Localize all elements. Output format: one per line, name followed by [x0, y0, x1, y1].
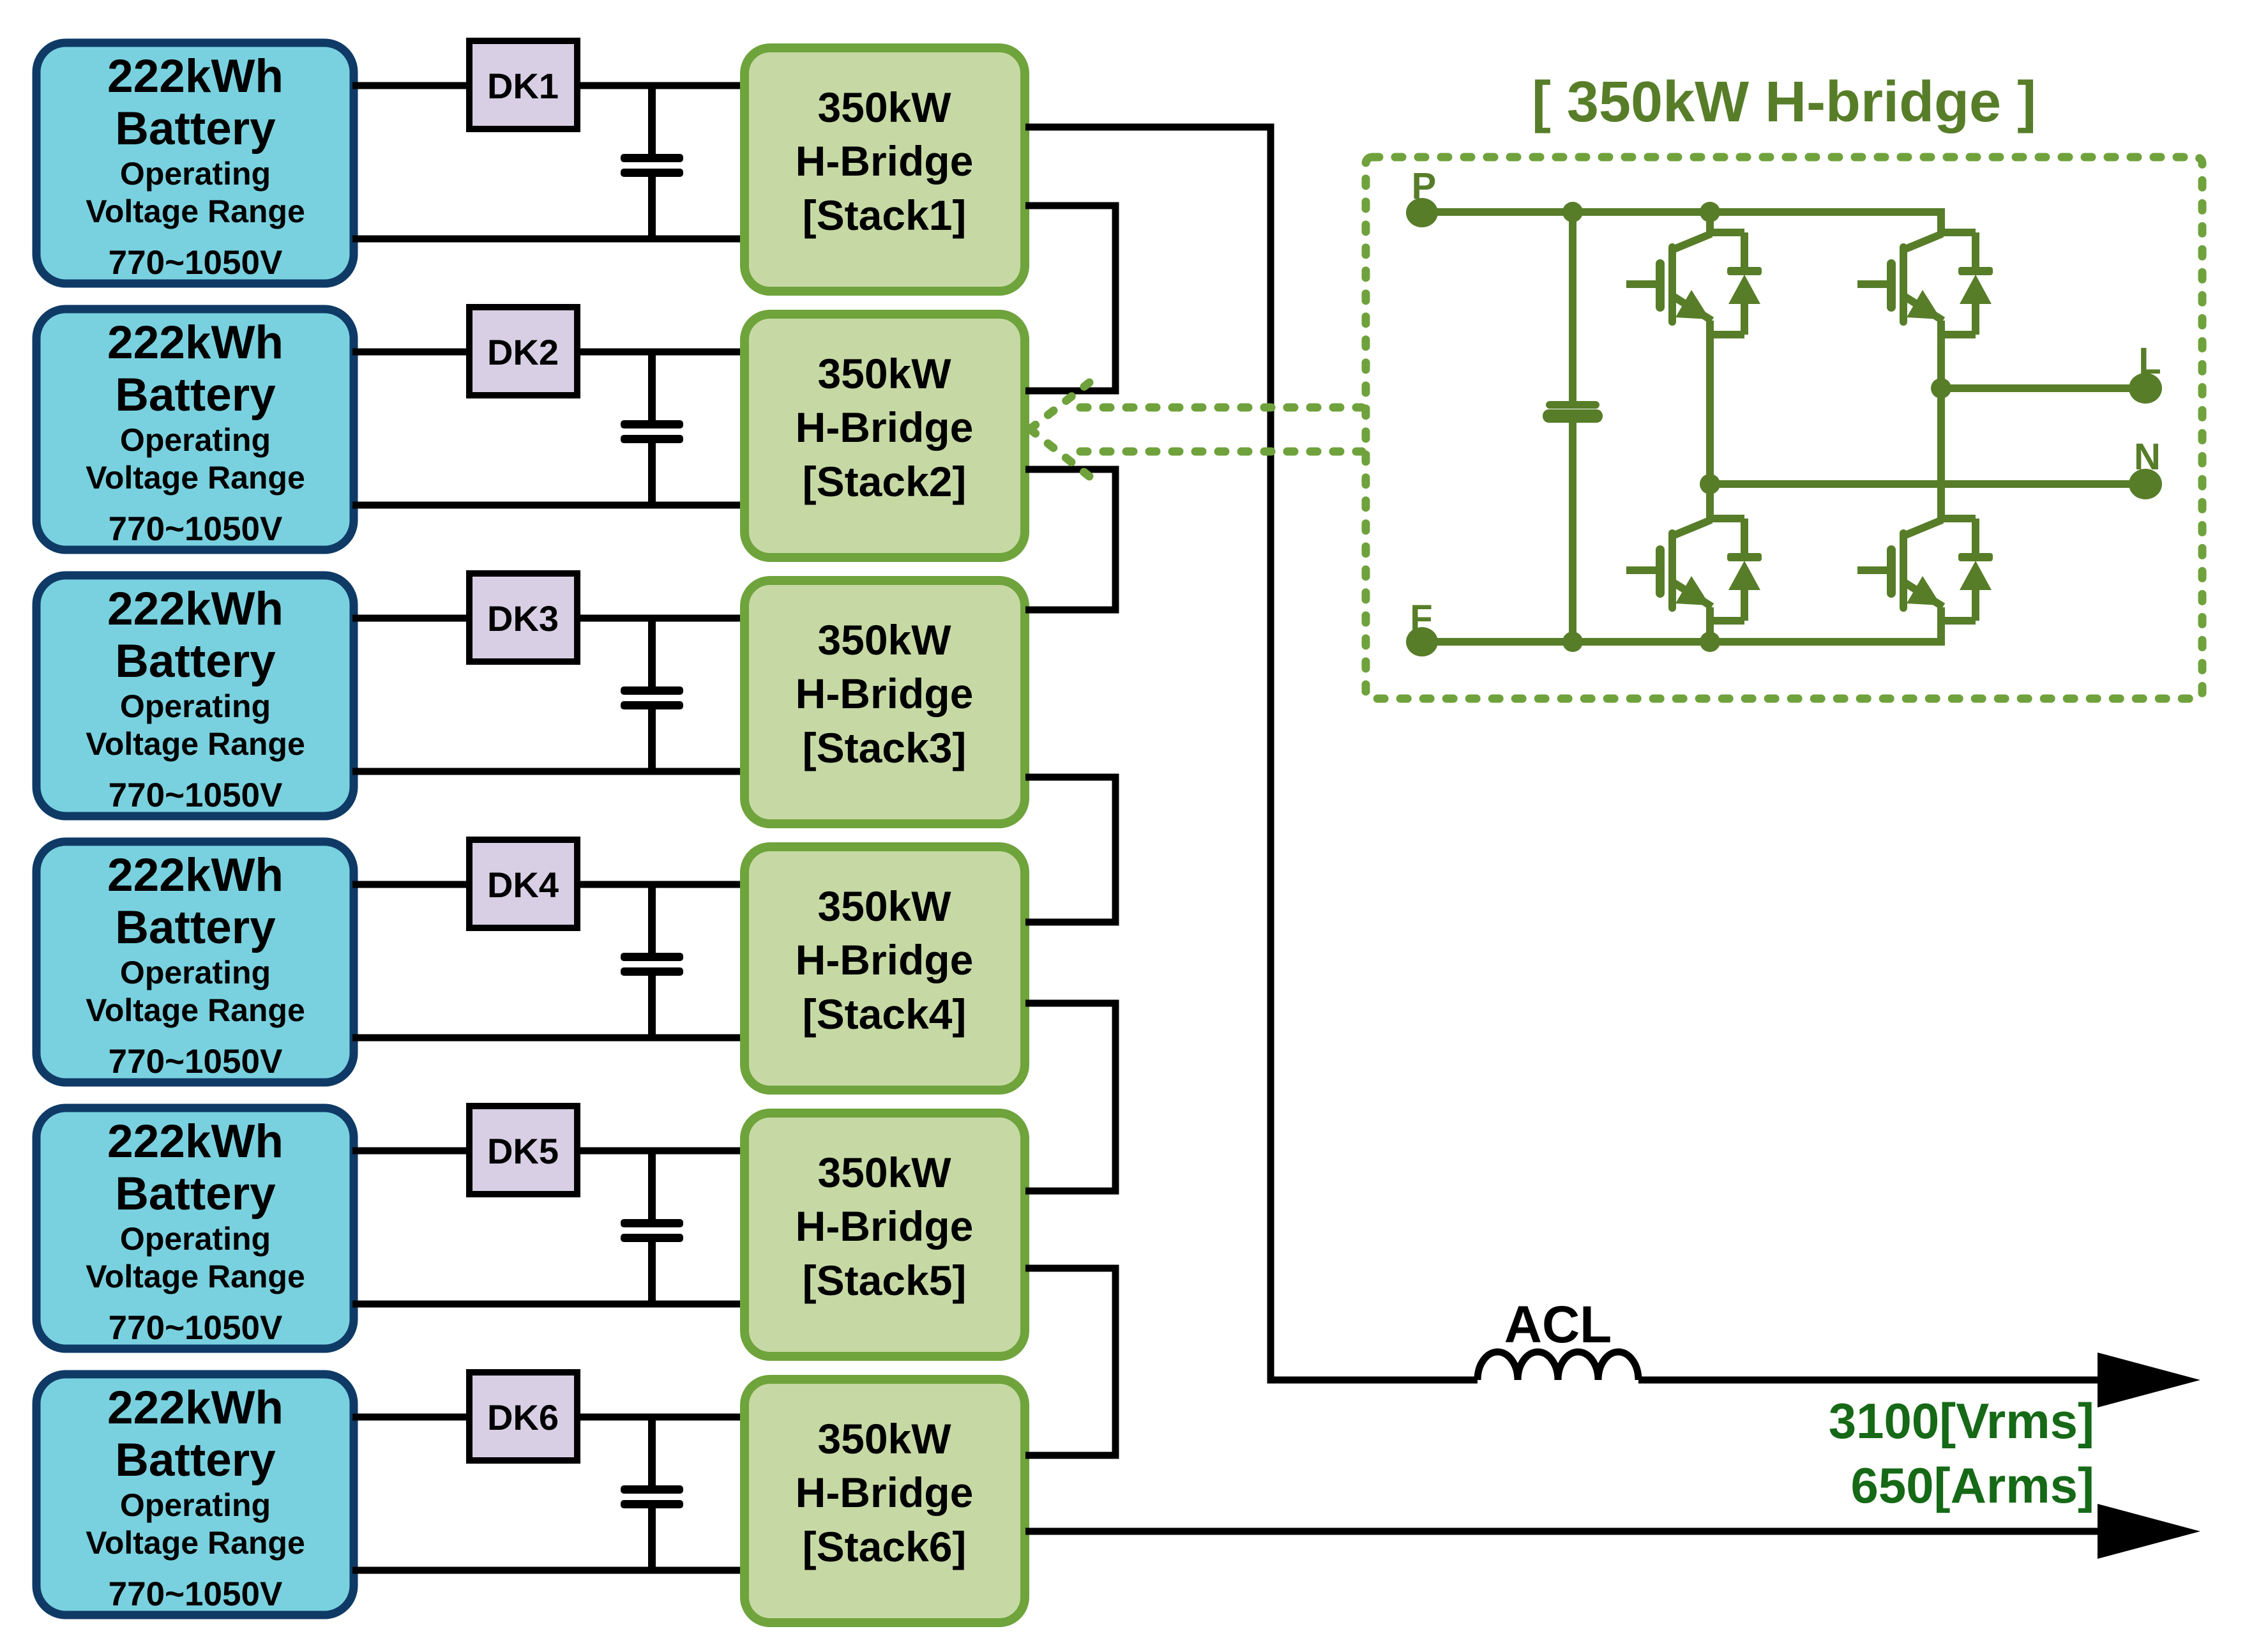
svg-text:H-Bridge: H-Bridge [796, 1202, 974, 1250]
svg-text:F: F [1410, 598, 1432, 639]
H-bridge converter stack2 350kW [745, 314, 1025, 557]
wire DC-link capacitor branch lower [1569, 423, 1576, 642]
DC-link capacitor C6 [621, 1414, 683, 1573]
wire battery B4 to DK4 [352, 881, 471, 888]
callout line lower [1080, 448, 1362, 456]
wire battery B2 negative rail to stack2 [352, 502, 743, 509]
wire P rail (top DC rail) [1422, 212, 1941, 233]
svg-text:Operating: Operating [120, 156, 271, 192]
dashed detail box for 350kW H-bridge [1366, 157, 2202, 699]
svg-text:Operating: Operating [120, 955, 271, 990]
wire left leg top stub [1706, 212, 1714, 233]
svg-text:Voltage Range: Voltage Range [86, 992, 305, 1028]
wire battery B6 negative rail to stack6 [352, 1567, 743, 1574]
wire stack6 output AC line 2 [1025, 1528, 2104, 1535]
svg-text:H-Bridge: H-Bridge [796, 670, 974, 717]
svg-text:[Stack5]: [Stack5] [803, 1257, 967, 1304]
series link wire stack1 to stack2 [1025, 206, 1115, 391]
DC contactor DK4 [469, 840, 577, 928]
svg-text:DK4: DK4 [487, 865, 559, 905]
wire stack1 output to AC phase bus [1025, 127, 1478, 1380]
node N terminal [2129, 469, 2162, 499]
DC-link capacitor C3 [621, 616, 683, 774]
svg-text:Battery: Battery [115, 369, 276, 421]
svg-text:[Stack2]: [Stack2] [803, 458, 967, 505]
svg-text:DK6: DK6 [487, 1397, 559, 1437]
svg-text:Operating: Operating [120, 1487, 271, 1523]
battery B3 222kWh [36, 575, 354, 816]
svg-text:ACL: ACL [1504, 1296, 1612, 1354]
H-bridge converter stack5 350kW [745, 1113, 1025, 1356]
H-bridge converter stack4 350kW [745, 847, 1025, 1090]
wire N output [1710, 480, 2145, 488]
svg-text:Voltage Range: Voltage Range [86, 193, 305, 229]
svg-text:DK3: DK3 [487, 598, 559, 639]
wire battery B3 to DK3 [352, 615, 471, 622]
wire right leg mid [1937, 321, 1945, 520]
svg-text:222kWh: 222kWh [107, 317, 283, 368]
H-bridge converter stack1 350kW [745, 48, 1025, 291]
svg-text:H-Bridge: H-Bridge [796, 404, 974, 451]
DC contactor DK2 [469, 307, 577, 395]
inductor ACL [1478, 1352, 1638, 1380]
svg-text:H-Bridge: H-Bridge [796, 936, 974, 983]
IGBT Q3 with diode D3 (bottom-left) [1626, 519, 1762, 621]
DC-link capacitor C4 [621, 882, 683, 1040]
svg-text:350kW: 350kW [817, 1415, 951, 1462]
svg-text:Voltage Range: Voltage Range [86, 1259, 305, 1294]
wire battery B5 negative rail to stack5 [352, 1301, 743, 1308]
wire battery B6 to DK6 [352, 1414, 471, 1421]
wire F rail (bottom DC rail) [1422, 621, 1941, 642]
wire battery B4 negative rail to stack4 [352, 1035, 743, 1042]
svg-text:P: P [1412, 165, 1437, 207]
wire DK4 to H-bridge stack4 (positive rail) [577, 881, 743, 888]
svg-text:350kW: 350kW [817, 84, 951, 131]
svg-text:[ 350kW H-bridge ]: [ 350kW H-bridge ] [1532, 70, 2036, 134]
battery B6 222kWh [36, 1374, 354, 1615]
series link wire stack4 to stack5 [1025, 1003, 1115, 1191]
wire DK1 to H-bridge stack1 (positive rail) [577, 82, 743, 89]
arrow AC line 1 [2098, 1353, 2200, 1407]
series link wire stack2 to stack3 [1025, 469, 1115, 610]
capacitor Cdc plate upper [1546, 401, 1599, 409]
svg-text:222kWh: 222kWh [107, 849, 283, 901]
svg-text:222kWh: 222kWh [107, 1382, 283, 1434]
wire DC-link capacitor branch upper [1569, 212, 1576, 401]
battery B4 222kWh [36, 842, 354, 1082]
DC-link capacitor C5 [621, 1148, 683, 1307]
wire AC line 1 output [1638, 1377, 2104, 1384]
junction F rail / left leg [1700, 632, 1720, 652]
wire DK6 to H-bridge stack6 (positive rail) [577, 1414, 743, 1421]
svg-text:Battery: Battery [115, 635, 276, 687]
svg-text:650[Arms]: 650[Arms] [1850, 1457, 2094, 1513]
svg-text:770~1050V: 770~1050V [109, 510, 283, 548]
callout wedge from stack2 (upper diagonal) [1030, 383, 1089, 429]
svg-text:DK1: DK1 [487, 66, 559, 106]
capacitor Cdc plate lower [1543, 409, 1603, 423]
series link wire stack3 to stack4 [1025, 777, 1115, 922]
DC contactor DK5 [469, 1106, 577, 1194]
wire DK5 to H-bridge stack5 (positive rail) [577, 1148, 743, 1155]
svg-text:L: L [2138, 340, 2161, 382]
callout wedge from stack2 (lower diagonal) [1030, 429, 1089, 476]
junction P rail / cap branch [1562, 202, 1583, 222]
svg-text:3100[Vrms]: 3100[Vrms] [1829, 1393, 2094, 1449]
svg-text:350kW: 350kW [817, 616, 951, 663]
series link wire stack5 to stack6 [1025, 1268, 1115, 1455]
wire battery B3 negative rail to stack3 [352, 768, 743, 775]
svg-text:[Stack6]: [Stack6] [803, 1523, 967, 1570]
H-bridge converter stack6 350kW [745, 1379, 1025, 1623]
svg-text:222kWh: 222kWh [107, 50, 283, 102]
wire battery B5 to DK5 [352, 1148, 471, 1155]
svg-text:Battery: Battery [115, 902, 276, 953]
svg-text:222kWh: 222kWh [107, 1116, 283, 1167]
svg-text:DK2: DK2 [487, 332, 559, 372]
svg-text:Battery: Battery [115, 103, 276, 155]
svg-text:770~1050V: 770~1050V [109, 1575, 283, 1613]
svg-text:350kW: 350kW [817, 1149, 951, 1196]
DC contactor DK6 [469, 1372, 577, 1460]
junction right leg / L line [1931, 378, 1951, 398]
battery B5 222kWh [36, 1108, 354, 1349]
svg-text:222kWh: 222kWh [107, 583, 283, 635]
DC contactor DK3 [469, 573, 577, 662]
svg-text:Battery: Battery [115, 1434, 276, 1486]
svg-text:Operating: Operating [120, 1221, 271, 1257]
IGBT Q2 with diode D2 (top-right) [1857, 232, 1993, 335]
wire DK2 to H-bridge stack2 (positive rail) [577, 349, 743, 356]
svg-text:770~1050V: 770~1050V [109, 244, 283, 282]
wire left leg mid [1706, 321, 1714, 520]
node P terminal [1406, 198, 1438, 227]
DC-link capacitor C1 [621, 83, 683, 241]
wire left leg bottom [1706, 607, 1714, 642]
svg-text:Battery: Battery [115, 1168, 276, 1220]
svg-text:Voltage Range: Voltage Range [86, 460, 305, 496]
callout line upper [1080, 404, 1362, 412]
svg-text:H-Bridge: H-Bridge [796, 137, 974, 185]
DC contactor DK1 [469, 41, 577, 129]
svg-text:Voltage Range: Voltage Range [86, 1525, 305, 1561]
svg-text:[Stack4]: [Stack4] [803, 990, 967, 1038]
battery B2 222kWh [36, 309, 354, 550]
svg-text:350kW: 350kW [817, 883, 951, 930]
DC-link capacitor C2 [621, 349, 683, 508]
arrow AC line 2 [2098, 1504, 2200, 1559]
svg-text:350kW: 350kW [817, 350, 951, 397]
svg-text:H-Bridge: H-Bridge [796, 1469, 974, 1516]
svg-text:770~1050V: 770~1050V [109, 1309, 283, 1347]
junction left leg / N line [1700, 474, 1720, 494]
svg-text:[Stack3]: [Stack3] [803, 724, 967, 771]
svg-text:770~1050V: 770~1050V [109, 1043, 283, 1080]
svg-text:770~1050V: 770~1050V [109, 777, 283, 814]
IGBT Q1 with diode D1 (top-left) [1626, 232, 1762, 335]
svg-text:DK5: DK5 [487, 1131, 559, 1171]
svg-text:[Stack1]: [Stack1] [803, 192, 967, 239]
svg-text:Voltage Range: Voltage Range [86, 726, 305, 762]
wire L output [1941, 384, 2145, 392]
wire battery B1 to DK1 [352, 82, 471, 89]
H-bridge converter stack3 350kW [745, 580, 1025, 824]
IGBT Q4 with diode D4 (bottom-right) [1857, 519, 1993, 621]
wire DK3 to H-bridge stack3 (positive rail) [577, 615, 743, 622]
svg-text:Operating: Operating [120, 688, 271, 724]
svg-text:N: N [2134, 436, 2161, 478]
junction F rail / cap branch [1562, 632, 1583, 652]
node L terminal [2129, 373, 2162, 404]
wire battery B1 negative rail to stack1 [352, 236, 743, 243]
svg-text:Operating: Operating [120, 422, 271, 458]
node F terminal [1406, 627, 1438, 656]
battery B1 222kWh [36, 43, 354, 284]
junction P rail / left leg [1700, 202, 1720, 222]
wire battery B2 to DK2 [352, 349, 471, 356]
wire right leg bottom [1937, 607, 1945, 642]
